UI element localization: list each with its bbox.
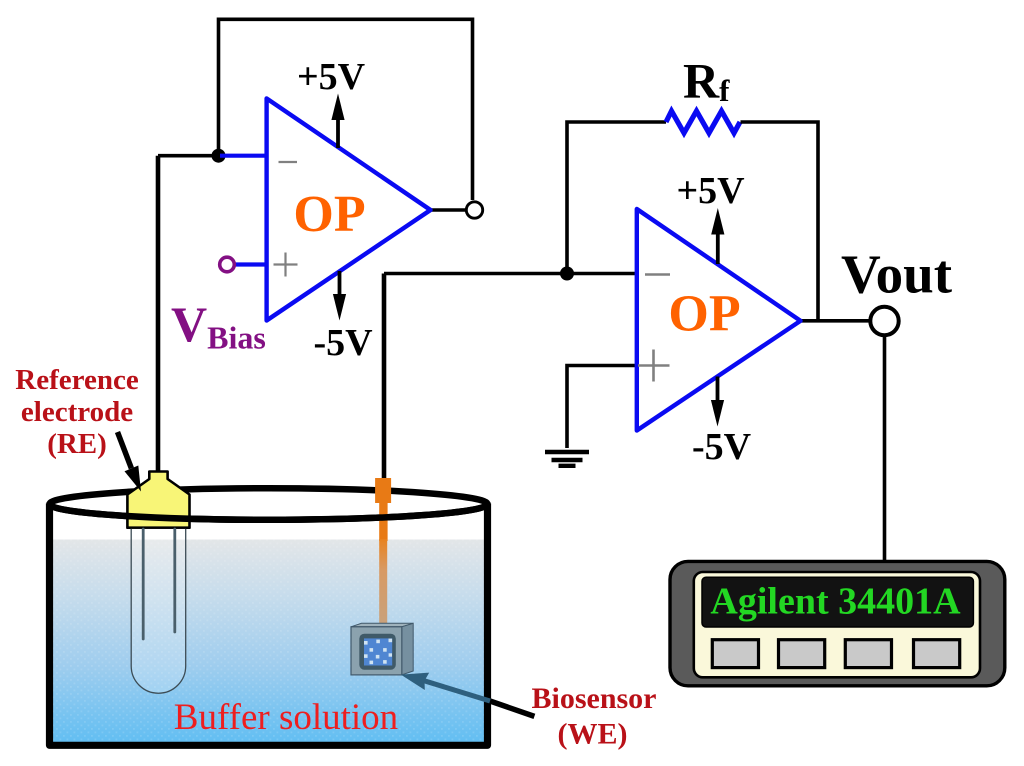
beaker rim front arc (over electrodes) (50, 504, 488, 520)
op-amp U1 triangle (267, 98, 431, 320)
resistor Rf (zigzag) (666, 111, 740, 133)
beaker body: water (53, 540, 485, 743)
ground symbol (545, 452, 589, 466)
multimeter front panel (694, 572, 980, 677)
beaker walls and bottom (50, 504, 488, 746)
reference electrode glass tube (131, 529, 186, 693)
button 4 (914, 640, 960, 668)
svg-text:-5V: -5V (313, 322, 373, 364)
svg-text:electrode: electrode (21, 396, 133, 428)
node: U2 inverting junction (560, 267, 574, 281)
wire: Vout down to multimeter (883, 336, 887, 563)
biosensor cube inner frame (359, 634, 396, 670)
RE inner wire right (173, 529, 176, 632)
biosensor rod underwater (fading) (379, 539, 387, 627)
reference electrode cap (RE) (127, 472, 189, 528)
node: U1 inverting junction (212, 149, 226, 163)
biosensor cube right face (402, 623, 413, 675)
svg-text:Agilent 34401A: Agilent 34401A (710, 581, 961, 623)
svg-text:-5V: -5V (692, 426, 752, 468)
svg-text:+5V: +5V (676, 170, 745, 212)
op-amp U1 feedback wire (219, 19, 473, 200)
wire: U1 output stub (431, 208, 466, 212)
wire: U1 inverting input stub (blue) (220, 154, 266, 158)
wire: U2 output (801, 319, 871, 323)
wire: U1 non-inverting input stub (blue) (233, 262, 266, 266)
button 2 (779, 640, 825, 668)
U1 -5V arrow (338, 271, 342, 296)
svg-text:OP: OP (668, 286, 740, 343)
svg-text:Vout: Vout (841, 244, 953, 305)
U2 feedback wire left vertical (567, 122, 666, 274)
biosensor cube top face (351, 623, 413, 627)
multimeter Agilent 34401A outer case (670, 561, 1005, 685)
biosensor rod upper (379, 502, 387, 541)
arrow: WE label to biosensor (slate inside beaker) (424, 681, 490, 701)
U2 feedback wire right (741, 122, 819, 321)
wire: U1 inverting input from RE (158, 154, 219, 158)
multimeter display (702, 577, 973, 627)
button 1 (712, 640, 758, 668)
button 3 (845, 640, 891, 668)
wire: U2 non-inverting to ground (567, 366, 637, 449)
svg-text:OP: OP (293, 186, 365, 243)
biosensor connector (orange block) (375, 478, 391, 503)
svg-text:(RE): (RE) (47, 428, 107, 460)
U1 minus symbol (279, 161, 298, 163)
biosensor dots (364, 639, 392, 665)
svg-text:Biosensor: Biosensor (531, 682, 656, 715)
wire: biosensor lead (vertical) (382, 274, 387, 481)
beaker rim ellipse (50, 488, 488, 520)
arrow: WE label to biosensor (black outside beaker) (490, 701, 534, 716)
op-amp U2 triangle (637, 209, 801, 431)
V_Bias input terminal (purple circle) (220, 257, 235, 272)
biosensor cube blue face (364, 638, 392, 665)
biosensor cube front face (351, 627, 402, 675)
U1 plus symbol (274, 253, 298, 277)
arrow: RE label to electrode (118, 432, 132, 468)
U1 +5V arrow (336, 117, 340, 148)
RE inner wire left (142, 529, 145, 639)
U2 +5V arrow (716, 232, 720, 264)
wire: biosensor to U2 inverting input (384, 272, 637, 276)
svg-text:Reference: Reference (15, 364, 139, 396)
Vout terminal (open circle) (870, 307, 898, 335)
U2 -5V arrow (716, 377, 720, 402)
U2 plus symbol (638, 350, 670, 382)
svg-text:Buffer solution: Buffer solution (174, 697, 398, 738)
svg-text:(WE): (WE) (558, 718, 628, 751)
svg-text:+5V: +5V (297, 56, 366, 98)
U2 minus symbol (645, 273, 670, 276)
U1 output terminal (open circle) (466, 202, 482, 218)
wire: reference electrode lead (vertical) (156, 156, 161, 478)
